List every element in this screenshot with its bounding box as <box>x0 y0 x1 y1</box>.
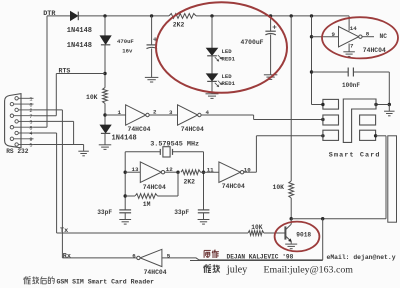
label C3 100nF <box>342 82 360 89</box>
wire Rx line <box>62 110 136 258</box>
wire crystal node to U2E pin 11 <box>201 171 219 173</box>
wire I/O node down to Rx line <box>322 219 324 260</box>
wire DB9 pin3 row to gnd tie <box>34 121 74 144</box>
label R4 2K2 <box>184 178 196 185</box>
svg-text:10K: 10K <box>273 184 285 191</box>
label D4 RED1 <box>222 56 236 63</box>
label R6 10K <box>251 224 262 231</box>
svg-text:1N4148: 1N4148 <box>112 134 137 142</box>
label D1 1N4148 <box>67 27 92 35</box>
node RTS label <box>59 68 71 75</box>
wire U1 output pin 8 <box>362 36 374 38</box>
svg-text:3.579545 MHz: 3.579545 MHz <box>150 141 199 149</box>
resistor R6 10K base series <box>248 231 264 236</box>
label 原作 (original author) in Chinese <box>204 250 219 258</box>
wire DB9 pin8 row to DTR vertical <box>34 126 48 128</box>
label U1 74HC04 <box>363 47 386 54</box>
label U1 pin 9 <box>332 31 336 38</box>
wire RTS vertical to DB9 <box>55 74 57 116</box>
label U2C pin 6 <box>132 252 136 259</box>
svg-text:5: 5 <box>29 143 32 149</box>
wire R3 to card I/O node <box>290 198 292 219</box>
svg-text:1N4148: 1N4148 <box>67 42 92 50</box>
label D5 RED1 <box>222 80 236 87</box>
junction dot U1 pin9 tap <box>310 35 313 38</box>
diode D3 1N4148 to ground <box>100 125 110 133</box>
label eMail dejan <box>327 254 396 261</box>
caption 修改后的 (modified) in Chinese <box>24 276 55 284</box>
label D5 LED <box>222 73 233 80</box>
junction dot card I/O contact <box>374 134 377 137</box>
wire VCC rail down to R3 <box>290 16 292 181</box>
label U1 NC <box>380 33 388 40</box>
divider line under author row <box>190 260 323 262</box>
wire U2C input from card I/O <box>162 258 323 260</box>
resistor R5 1M feedback <box>135 194 158 199</box>
svg-text:Email:juley@163.com: Email:juley@163.com <box>264 264 354 275</box>
wire LED2 to ground <box>211 81 213 93</box>
label D2 1N4148 <box>67 42 92 50</box>
label RS 232 <box>6 148 29 155</box>
svg-text:DTR: DTR <box>43 10 56 18</box>
svg-text:9: 9 <box>332 31 336 38</box>
ground below Q1 emitter <box>285 244 297 249</box>
wire DTR vertical to DB9 pin <box>46 16 48 127</box>
wire top VCC rail from DTR to U1 pin 14 <box>47 16 349 31</box>
svg-text:11: 11 <box>207 166 214 173</box>
op-amp U2F 74HC04 oscillator inverter <box>140 162 164 183</box>
capacitor C2 plates <box>265 31 275 35</box>
wire DB9 pin2 row to Rx vertical <box>34 109 63 111</box>
label Smart Card <box>329 152 381 160</box>
LED D5 RED1 <box>207 74 218 82</box>
junction dot osc feedback left <box>124 194 127 197</box>
svg-text:9018: 9018 <box>296 231 311 238</box>
node DTR label <box>43 10 56 18</box>
wire U2B output to smart card clock contact <box>201 115 323 120</box>
connector J1 pin numbers <box>29 97 32 149</box>
label U2B pin 4 <box>206 109 210 116</box>
svg-text:RS 232: RS 232 <box>6 148 29 155</box>
label U2A pin 2 <box>153 109 157 116</box>
smart card body outline fragment <box>388 136 397 222</box>
label U2F pin 13 <box>132 166 139 173</box>
wire C2 to ground <box>270 35 272 75</box>
junction dot U2F output node <box>176 171 179 174</box>
junction dot inverter input on left bus <box>103 113 106 116</box>
smart card center contact shape <box>343 99 376 142</box>
ground below U1 pin7 <box>343 52 355 57</box>
ground below C2 <box>264 75 278 80</box>
svg-text:14: 14 <box>350 25 357 32</box>
label U2E 74HC04 <box>222 183 245 190</box>
connector J1 pin circles and stubs <box>10 97 33 147</box>
capacitor C5 33pF right <box>198 210 210 219</box>
svg-text:LED: LED <box>222 73 233 80</box>
svg-text:74HC04: 74HC04 <box>222 183 245 190</box>
capacitor C1 plates <box>147 45 158 49</box>
wire left bus upper segment <box>104 16 106 36</box>
svg-text:470uF: 470uF <box>117 38 134 45</box>
label Q1 9018 <box>296 231 311 238</box>
svg-text:7: 7 <box>350 42 354 49</box>
label U1 pin 14 <box>350 25 357 32</box>
junction dot card reset contact <box>321 134 324 137</box>
smart card contact pad RST (bottom-left) <box>323 130 339 140</box>
svg-text:6: 6 <box>132 252 136 259</box>
transistor Q1 9018 <box>264 219 292 244</box>
svg-text:RED1: RED1 <box>222 56 236 63</box>
label C5 33pF <box>174 209 189 216</box>
ground below C5 <box>198 220 210 225</box>
capacitor C1 470uF 16v stem <box>151 16 153 45</box>
label author DEJAN KALJEVIC '98 <box>227 254 294 261</box>
wire diode D3 to ground <box>104 133 106 144</box>
LED D4 emission arrows <box>215 55 222 61</box>
label R1 10K <box>86 94 98 101</box>
junction dot crystal right node <box>202 171 205 174</box>
junction dot card GND node <box>388 103 391 106</box>
op-amp U2A 74HC04 inverter <box>126 105 150 125</box>
junction dot 100nF tap <box>310 70 313 73</box>
diode D2 1N4148 clamp to bus <box>100 36 110 45</box>
junction dots on top rail <box>103 14 313 17</box>
label U2E pin 10 <box>244 167 251 174</box>
svg-text:1: 1 <box>118 109 122 116</box>
LED D5 emission arrows <box>215 81 222 87</box>
wire LED1 to LED2 <box>211 56 213 74</box>
op-amp U2B 74HC04 inverter <box>178 105 202 125</box>
resistor R2 2K2 on VCC rail <box>169 14 196 19</box>
svg-text:74HC04: 74HC04 <box>363 47 386 54</box>
wire U1 pin 9 input <box>312 36 339 38</box>
wire left bus lower segment <box>104 103 106 125</box>
svg-text:4700uF: 4700uF <box>241 39 264 46</box>
svg-text:NC: NC <box>380 33 388 40</box>
svg-text:GSM SIM Smart Card Reader: GSM SIM Smart Card Reader <box>57 279 155 286</box>
label U2E pin 11 <box>207 166 214 173</box>
svg-text:Smart Card: Smart Card <box>329 152 381 160</box>
annotation red ellipse around U1 spare inverter <box>322 17 398 58</box>
junction dot osc input node <box>124 171 127 174</box>
ground DB9 GND <box>78 151 89 156</box>
label U1 pin 8 <box>366 31 370 38</box>
svg-text:1N4148: 1N4148 <box>67 27 92 35</box>
svg-text:74HC04: 74HC04 <box>144 269 167 276</box>
wire down to ground symbol <box>388 105 390 111</box>
capacitor C2 4700uF stem <box>270 16 272 31</box>
wire RTS horizontal <box>56 73 105 75</box>
svg-text:eMail: dejan@net.y: eMail: dejan@net.y <box>327 254 396 261</box>
label U2F pin 12 <box>166 166 173 173</box>
label U1 pin 7 <box>350 42 354 49</box>
wire U2A out to U2B in <box>149 114 178 116</box>
wire U1 pin 7 to ground <box>348 44 350 52</box>
wire DB9 pin7 row to RTS vertical <box>34 115 57 117</box>
label U2A pin 1 <box>118 109 122 116</box>
junction dot RTS on left bus <box>103 72 106 75</box>
label D3 1N4148 <box>112 134 137 142</box>
wire Tx line <box>57 133 248 233</box>
svg-text:33pF: 33pF <box>97 209 112 216</box>
capacitor C3 100nF plates <box>348 68 353 77</box>
crystal X1 3.579545 MHz <box>160 147 172 157</box>
junction dot card clock contact <box>321 118 324 121</box>
wire bus to U2A input pin 1 <box>105 114 126 116</box>
label juley email <box>226 264 353 275</box>
svg-text:74HC04: 74HC04 <box>181 126 204 133</box>
caption GSM SIM Smart Card Reader <box>57 279 155 286</box>
LED D4 RED1 <box>207 48 218 56</box>
label U2A 74HC04 <box>128 126 151 133</box>
wire U2E output to smart card reset contact <box>244 136 323 172</box>
annotation red ellipse around transistor 9018 <box>275 222 320 252</box>
svg-text:Tx: Tx <box>60 227 68 235</box>
ground smart card GND <box>384 111 395 116</box>
junction dot card VCC contact <box>321 103 324 106</box>
svg-text:33pF: 33pF <box>174 209 189 216</box>
svg-text:2K2: 2K2 <box>184 178 196 185</box>
ground below C4 <box>119 220 131 225</box>
label R5 1M <box>143 201 151 208</box>
diode D1 1N4148 series on DTR rail <box>71 12 79 21</box>
wire DB9 pin4 row to Tx vertical <box>34 132 57 134</box>
label C2 4700uF <box>241 39 264 46</box>
svg-text:74HC04: 74HC04 <box>128 126 151 133</box>
label U2B pin 3 <box>169 109 173 116</box>
resistor R4 2K2 series <box>181 170 201 175</box>
node Tx label <box>60 227 68 235</box>
wire U2F input pin 13 <box>125 171 140 173</box>
label D4 LED <box>222 48 233 55</box>
label C4 33pF <box>97 209 112 216</box>
wire C1 to ground <box>151 48 153 77</box>
svg-text:16v: 16v <box>122 48 133 55</box>
smart card contact pad I/O (bottom-right) <box>360 130 376 140</box>
ground below C1 <box>145 77 159 82</box>
svg-text:10K: 10K <box>86 94 98 101</box>
smart card contact pad CLK (mid-left) <box>323 115 339 125</box>
ground below D3 <box>99 145 112 150</box>
svg-text:2: 2 <box>153 109 157 116</box>
svg-text:1M: 1M <box>143 201 151 208</box>
svg-text:13: 13 <box>132 166 139 173</box>
label C1 470uF <box>117 38 134 45</box>
svg-text:Rx: Rx <box>63 252 71 260</box>
label U2B 74HC04 <box>181 126 204 133</box>
label R2 2K2 <box>173 21 185 28</box>
wire left bus mid segment <box>104 45 106 88</box>
op-amp U1F 74HC04 spare inverter <box>339 27 363 47</box>
label R3 10K <box>273 184 285 191</box>
op-amp U2E 74HC04 buffer inverter <box>219 162 244 183</box>
svg-text:RED1: RED1 <box>222 80 236 87</box>
wire VCC bus to smart card VCC contact <box>312 16 323 105</box>
smart card contact pad (mid-right) <box>360 115 376 125</box>
capacitor C4 33pF left <box>119 210 131 219</box>
smart card contact pad VCC (top-left) <box>323 99 339 109</box>
capacitor C2 plus sign <box>273 25 277 29</box>
junction dot I/O to Rx branch <box>321 217 324 220</box>
wire feedback bottom <box>125 195 135 197</box>
svg-text:74HC04: 74HC04 <box>143 184 166 191</box>
label U2C pin 5 <box>167 252 171 259</box>
label U2F 74HC04 <box>143 184 166 191</box>
wire U2F output <box>165 171 178 173</box>
wire osc left column <box>124 152 126 210</box>
resistor R1 10K vertical on left bus <box>103 88 108 104</box>
wire C3 to right vertical <box>353 72 389 105</box>
svg-text:DEJAN KALJEVIC '98: DEJAN KALJEVIC '98 <box>227 254 294 261</box>
svg-text:2K2: 2K2 <box>173 21 185 28</box>
node Rx label <box>63 252 71 260</box>
ground below LED string <box>206 94 219 99</box>
annotation red ellipse around LED / caps section <box>156 2 287 93</box>
junction dot card I/O node at transistor collector <box>290 217 293 220</box>
wire card I/O contact down to transistor node <box>291 136 386 219</box>
svg-text:juley: juley <box>226 264 248 275</box>
label crystal 3.579545 MHz <box>150 141 199 149</box>
svg-text:3: 3 <box>169 109 173 116</box>
wire card GND contact to ground node <box>376 104 389 106</box>
resistor R3 10K pull-up <box>289 181 294 198</box>
wire rail to LED1 <box>211 16 213 48</box>
capacitor C1 plus sign <box>153 37 157 41</box>
svg-text:100nF: 100nF <box>342 82 360 89</box>
wire osc top right <box>173 152 204 210</box>
label C1 16v <box>122 48 133 55</box>
label U2C 74HC04 <box>144 269 167 276</box>
svg-text:LED: LED <box>222 48 233 55</box>
wire bus to C3 100nF <box>312 71 349 73</box>
junction dot card GND contact <box>374 103 377 106</box>
op-amp U2C 74HC04 Rx inverter (points left) <box>137 249 162 266</box>
wire osc top left <box>125 151 160 153</box>
connector J1 RS232 DB9 shell <box>5 94 21 148</box>
wire DB9 pin5 GND row <box>34 145 84 151</box>
label 修改 (modified by) in Chinese <box>204 264 220 273</box>
wire feedback to output node <box>158 172 179 196</box>
